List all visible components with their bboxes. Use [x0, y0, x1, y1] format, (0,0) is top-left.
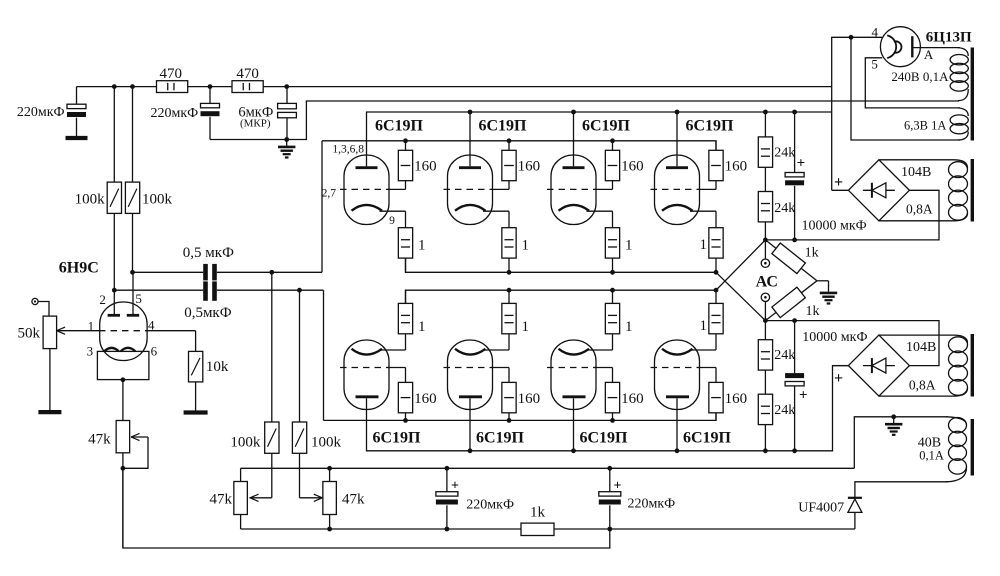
transformer core (top) [971, 48, 974, 141]
wire: top grid bus from coupling cap A [322, 141, 716, 151]
svg-text:24k: 24k [774, 145, 795, 160]
svg-text:+: + [834, 174, 843, 191]
svg-text:6С19П: 6С19П [686, 118, 735, 135]
capacitor 220мкФ (input filter, left) [17, 87, 88, 138]
svg-text:160: 160 [518, 391, 541, 407]
wire: pin 5 to heater winding [865, 58, 960, 108]
resistor 1 (cathode V4) [700, 228, 724, 273]
tube 6С19П V6 (lower bank, inverted) [444, 334, 510, 450]
wire: bridge1 AC leads to winding [879, 160, 968, 168]
resistor 100k (plate load, right triode) [125, 87, 172, 273]
wire: cap-B line (lower 0,5мкФ) to bottom grid bus [114, 289, 203, 291]
resistor 1 (cathode V1) [398, 228, 425, 273]
wire: 40В bottom to diode [855, 482, 948, 497]
node dots: top buses [468, 110, 473, 115]
svg-text:9: 9 [389, 215, 395, 227]
wire: lowest bias return line [123, 468, 610, 548]
svg-text:160: 160 [621, 158, 644, 174]
svg-text:6С19П: 6С19П [580, 429, 629, 446]
wire: bottom grid bus from coupling cap B [324, 413, 717, 421]
svg-text:10000 мкФ: 10000 мкФ [802, 330, 867, 345]
resistor 470 (first filter) [157, 66, 188, 92]
speaker terminal (upper) [761, 259, 769, 267]
svg-text:АС: АС [756, 274, 778, 291]
svg-text:220мкФ: 220мкФ [628, 496, 676, 511]
svg-text:+: + [614, 478, 622, 493]
tube 6С19П V4 (upper bank) [651, 112, 717, 228]
capacitor 0,5мкФ (upper coupling) [203, 264, 208, 281]
grid (dashed) with pins 1/4 [58, 330, 101, 332]
svg-text:24k: 24k [774, 348, 795, 363]
svg-text:0,8А: 0,8А [909, 378, 936, 393]
resistor 160 (grid stopper V6) [502, 382, 540, 420]
cathode box (common cathode connection) [97, 351, 148, 379]
svg-text:2,7: 2,7 [322, 188, 337, 200]
svg-text:240В: 240В [891, 69, 920, 84]
svg-text:104В: 104В [901, 165, 931, 180]
svg-text:6: 6 [151, 344, 158, 359]
transformer core (104В lower) [971, 334, 974, 397]
cathodes (two arcs) [104, 348, 119, 352]
svg-text:220мкФ: 220мкФ [17, 105, 65, 120]
svg-text:+: + [834, 370, 843, 387]
anode plate (triode 2) [127, 314, 139, 317]
svg-text:47k: 47k [342, 491, 365, 507]
wire: bridge2 AC leads to winding [879, 335, 968, 343]
svg-text:+: + [451, 478, 459, 493]
svg-text:2: 2 [99, 292, 106, 307]
svg-text:4: 4 [148, 318, 155, 333]
svg-text:24k: 24k [774, 403, 795, 418]
svg-text:0,1А: 0,1А [923, 69, 949, 84]
bridge rectifier (lower, 104В) [848, 335, 909, 396]
svg-text:+: + [799, 388, 808, 404]
svg-text:160: 160 [414, 391, 437, 407]
svg-text:6С19П: 6С19П [479, 118, 528, 135]
svg-text:5: 5 [871, 56, 878, 71]
svg-text:6С19П: 6С19П [582, 118, 631, 135]
svg-text:50k: 50k [18, 325, 41, 341]
svg-text:A: A [924, 47, 934, 62]
tube 6С19П V7 (lower bank, inverted) [547, 334, 613, 450]
node dots on coupling lines [130, 270, 135, 275]
svg-text:1: 1 [625, 238, 633, 254]
svg-text:6С19П: 6С19П [683, 429, 732, 446]
transformer winding 104В 0,8А (upper) [901, 162, 968, 221]
wire: +rail to speaker terminal [764, 240, 766, 259]
resistor 24k (bleeder upper 1) [758, 112, 795, 167]
resistor 24k (bleeder lower 2) [758, 370, 795, 451]
resistor 160 (grid stopper V1) [398, 141, 436, 181]
capacitor 220мкФ (second filter) [150, 87, 286, 140]
wire: 40В winding top to ground bus [854, 417, 948, 469]
svg-text:0,1А: 0,1А [919, 448, 944, 462]
resistor 160 (grid stopper V3) [605, 141, 643, 181]
svg-text:220мкФ: 220мкФ [466, 497, 514, 512]
svg-text:3: 3 [87, 344, 94, 359]
resistor 24k (bleeder lower 1) [758, 321, 795, 371]
svg-text:47k: 47k [88, 432, 111, 448]
resistor 1 (cathode V5) [398, 290, 425, 335]
svg-text:100k: 100k [75, 192, 106, 208]
svg-text:47k: 47k [210, 491, 233, 507]
resistor 160 (grid stopper V4) [709, 141, 747, 181]
svg-text:(МКР): (МКР) [240, 118, 271, 130]
resistor 160 (grid stopper V7) [605, 382, 643, 420]
transformer core (40В) [971, 419, 974, 476]
potentiometer 50k (volume) [18, 302, 66, 413]
ground (bias winding) [891, 414, 896, 419]
svg-text:1,3,6,8: 1,3,6,8 [332, 144, 364, 156]
svg-text:100k: 100k [311, 434, 342, 450]
svg-text:1: 1 [418, 238, 426, 254]
svg-text:1k: 1k [530, 505, 546, 521]
svg-text:5: 5 [135, 291, 142, 306]
svg-text:1: 1 [700, 318, 708, 334]
tube 6С19П V5 (lower bank, inverted) [340, 334, 406, 409]
wire: top anode bus (+B) [367, 112, 832, 166]
svg-text:100k: 100k [230, 434, 261, 450]
wire: bridge1 + lead [832, 189, 849, 191]
svg-text:6С19П: 6С19П [375, 118, 424, 135]
svg-text:0,5мкФ: 0,5мкФ [184, 305, 232, 321]
svg-text:1: 1 [700, 237, 708, 253]
transformer winding 104В 0,8А (lower) [906, 337, 968, 396]
resistor 100k (bias feed, lower bank) [292, 290, 341, 501]
svg-text:4: 4 [872, 25, 879, 40]
svg-text:100k: 100k [142, 192, 173, 208]
wire: bottom anode bus [367, 366, 849, 451]
resistor 160 (grid stopper V8) [709, 382, 747, 420]
svg-text:10000 мкФ: 10000 мкФ [802, 218, 867, 233]
tube 6С19П V8 (lower bank, inverted) [651, 334, 717, 450]
svg-text:6,3В 1А: 6,3В 1А [904, 118, 946, 132]
svg-text:24k: 24k [774, 201, 795, 216]
wire: top cathode bus to output [406, 258, 717, 272]
resistor 1k (bias feed) [521, 505, 554, 536]
wire: line A up to rectifier cathode (pin 4) [832, 37, 883, 190]
resistor 1k (balance, lower diagonal) [765, 281, 817, 321]
svg-text:160: 160 [725, 391, 748, 407]
resistor 1 (cathode V7) [605, 290, 632, 335]
wire: ground bus [241, 467, 855, 469]
svg-text:UF4007: UF4007 [798, 501, 844, 516]
capacitor 10000 мкФ (upper filter) [785, 112, 867, 240]
capacitor 6мкФ (МКР film) [238, 87, 296, 140]
transformer winding 40В 0,1А [918, 417, 967, 482]
ground (output centre) [817, 280, 829, 282]
svg-text:1: 1 [625, 319, 633, 335]
svg-text:1k: 1k [806, 304, 820, 319]
wire: rails y240/y320 to bridges [765, 190, 939, 240]
resistor 1 (cathode V8) [700, 290, 724, 334]
svg-text:10k: 10k [206, 359, 229, 375]
svg-text:160: 160 [621, 391, 644, 407]
resistor 24k (bleeder upper 2) [758, 167, 795, 240]
potentiometer 47k (cathode of driver) [88, 380, 148, 548]
tube 6Ц13П (damper diode rectifier) [880, 27, 960, 67]
svg-text:1k: 1k [805, 246, 819, 261]
resistor 1 (cathode V2) [502, 228, 529, 273]
resistor 160 (grid stopper V5) [398, 382, 436, 420]
tube 6С19П V3 (upper bank) [547, 112, 613, 228]
svg-text:6С19П: 6С19П [373, 429, 422, 446]
svg-text:6Ц13П: 6Ц13П [926, 29, 972, 45]
capacitor 220мкФ (bias filter right) [599, 468, 675, 529]
resistor 100k (plate load, left triode) [75, 87, 122, 291]
ground (filter ground) [284, 137, 289, 142]
potentiometer 47k (bias lower bank) [323, 468, 365, 529]
transformer winding 6,3В 1А [904, 108, 968, 140]
capacitor 220мкФ (bias filter left) [436, 468, 514, 529]
wire: output diagonals to speaker node [716, 240, 765, 290]
capacitor 0,5мкФ (lower coupling) [203, 281, 208, 300]
resistor 470 (second filter) [232, 66, 263, 92]
svg-text:160: 160 [725, 158, 748, 174]
wire: bottom cathode bus to output [406, 290, 717, 303]
svg-text:+: + [797, 156, 806, 172]
resistor 1 (cathode V3) [605, 228, 632, 273]
tube 6С19П V1 (upper bank) [340, 155, 406, 228]
wire: line B 240V winding return to ground [287, 101, 959, 140]
bridge rectifier (upper, 104В) [848, 160, 909, 221]
potentiometer 47k (bias upper bank) [210, 468, 248, 529]
svg-text:220мкФ: 220мкФ [150, 106, 198, 121]
svg-text:160: 160 [414, 158, 437, 174]
wire: heater winding return to pin 4 node [851, 37, 960, 140]
transformer winding 240В 0,1А [891, 48, 968, 101]
resistor 160 (grid stopper V2) [502, 141, 540, 181]
svg-text:6С19П: 6С19П [476, 429, 525, 446]
resistor 100k (bias feed, upper bank) [230, 272, 279, 501]
anode bar + lead [911, 36, 913, 57]
svg-text:0,8А: 0,8А [906, 201, 933, 216]
input terminal [32, 298, 38, 304]
svg-text:470: 470 [236, 66, 259, 82]
node: junction dots on line A [112, 84, 117, 89]
svg-text:470: 470 [160, 66, 183, 82]
wire: +240V rail (line A) from C1 to rectifier, through R 470 filters [77, 86, 157, 88]
svg-text:1: 1 [418, 319, 426, 335]
svg-text:160: 160 [518, 158, 541, 174]
wire: bias line through 1k [241, 528, 521, 530]
capacitor 10000 мкФ (lower filter) [785, 321, 867, 451]
tube 6С19П V2 (upper bank) [444, 112, 510, 228]
transformer core (104В upper) [971, 159, 974, 222]
svg-text:1: 1 [522, 238, 530, 254]
wire: cap-A line (upper 0,5мкФ) to top grid bus [133, 271, 204, 273]
svg-text:104В: 104В [906, 340, 936, 355]
diode UF4007 (bias rectifier) [798, 498, 862, 529]
anode plate (triode 1) [108, 314, 120, 317]
svg-text:1: 1 [522, 319, 530, 335]
tube 6Н9С (driver, twin triode) [58, 272, 196, 382]
wire: bridge2 + lead [833, 365, 849, 367]
svg-text:6Н9С: 6Н9С [59, 260, 99, 277]
resistor 10k (grid leak, triode 2) [184, 331, 229, 413]
resistor 1k (balance, upper diagonal) [765, 240, 817, 281]
svg-text:0,5 мкФ: 0,5 мкФ [183, 245, 234, 261]
speaker terminal (lower) [761, 293, 769, 301]
svg-text:1: 1 [88, 319, 95, 334]
node dots: bottom buses [468, 448, 473, 453]
resistor 1 (cathode V6) [502, 290, 529, 335]
